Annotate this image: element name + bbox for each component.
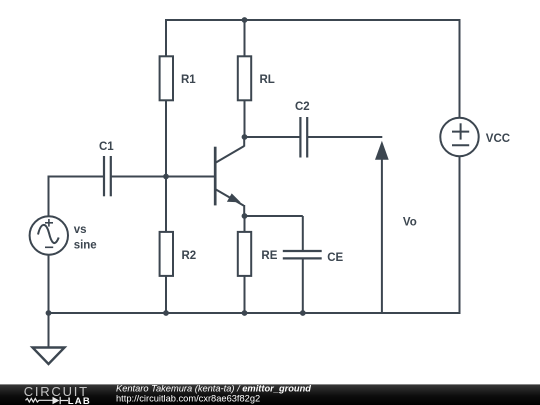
resistor RE (238, 232, 251, 276)
svg-text:Kentaro Takemura (kenta-ta) /: Kentaro Takemura (kenta-ta) / emittor_gr… (116, 383, 311, 393)
wire top rail (166, 19, 460, 21)
svg-text:RE: RE (261, 250, 277, 262)
wire RE top (244, 216, 246, 232)
capacitor C2 (300, 117, 307, 158)
svg-text:RL: RL (260, 74, 275, 86)
node collector (242, 134, 248, 140)
wire RL bottom to collector node (244, 101, 246, 138)
wire base (166, 176, 214, 178)
node emitter (242, 213, 248, 219)
wire emitter row (245, 215, 303, 217)
transistor Q1 (215, 136, 244, 216)
wire CE top (302, 216, 304, 251)
node top rail / RL junction (242, 17, 248, 23)
wire bottom rail (49, 312, 460, 314)
voltage source VCC (440, 118, 478, 156)
svg-text:sine: sine (74, 240, 97, 252)
annotation Vo arrow (375, 141, 389, 313)
resistor RL (238, 56, 251, 100)
node ground rail R2 (163, 310, 169, 316)
svg-text:R2: R2 (182, 250, 197, 262)
wire R1 bottom to base node (165, 101, 167, 177)
resistor R2 (160, 232, 173, 276)
node base (163, 174, 169, 180)
wire RE bottom (244, 277, 246, 314)
svg-text:C2: C2 (295, 101, 310, 113)
svg-text:VCC: VCC (486, 133, 510, 145)
wire vs bottom (48, 255, 50, 313)
svg-text:CE: CE (327, 252, 343, 264)
wire RL top (244, 19, 246, 56)
svg-text:R1: R1 (181, 74, 196, 86)
wire collector node to C2 (245, 136, 301, 138)
wire R1 top (165, 19, 167, 56)
svg-text:C1: C1 (99, 141, 114, 153)
svg-text:LAB: LAB (68, 396, 91, 405)
node ground rail CE (300, 310, 306, 316)
svg-text:vs: vs (74, 224, 87, 236)
wire CE bottom (302, 258, 304, 313)
resistor R1 (160, 56, 173, 100)
svg-text:Vo: Vo (403, 217, 417, 229)
capacitor CE (283, 251, 322, 258)
wire R2 top (165, 177, 167, 232)
logo zigzag and diode (26, 397, 69, 404)
node ground rail vs (46, 310, 52, 316)
capacitor C1 (104, 156, 111, 196)
svg-text:http://circuitlab.com/cxr8ae63: http://circuitlab.com/cxr8ae63f82g2 (116, 393, 260, 403)
wire C1 to base node (111, 176, 166, 178)
wire VCC top (459, 19, 461, 119)
wire VCC bottom (459, 156, 461, 314)
wire ground stem (48, 313, 50, 348)
wire C2 to output (307, 136, 382, 138)
wire R2 bottom (165, 277, 167, 314)
voltage source vs (30, 216, 68, 254)
ground (33, 348, 65, 365)
wire vs top (49, 177, 105, 217)
node ground rail RE (242, 310, 248, 316)
